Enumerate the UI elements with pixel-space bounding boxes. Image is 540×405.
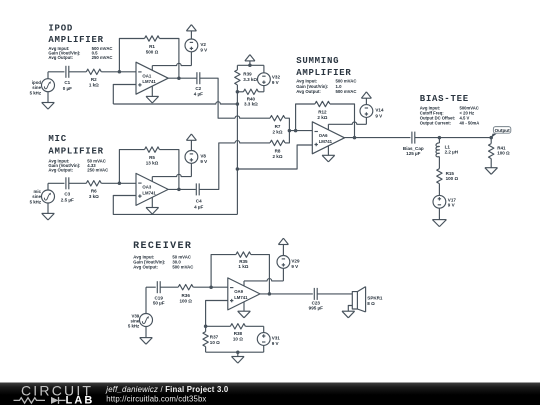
svg-text:R37: R37 <box>210 334 219 339</box>
wire <box>330 104 355 138</box>
op-amp OA6 V+ pin wire <box>328 117 366 129</box>
ground <box>146 208 159 215</box>
svg-text:10 Ω: 10 Ω <box>233 337 243 342</box>
op-amp OA3 <box>136 173 168 205</box>
circuitlab logo text CIRCUIT <box>21 382 93 398</box>
node junction <box>236 350 240 354</box>
resistor R12 <box>315 101 330 120</box>
node: mic amplifier title <box>48 134 103 156</box>
svg-text:BIAS-TEE: BIAS-TEE <box>420 94 469 104</box>
wire <box>237 64 264 66</box>
wire <box>113 85 136 105</box>
node: mic amplifier stats <box>48 158 108 172</box>
svg-text:9 V: 9 V <box>291 264 298 269</box>
wire <box>168 77 196 79</box>
voltage source V5 mic sine 5 kHz <box>30 189 55 205</box>
svg-text:5 kHz: 5 kHz <box>30 90 42 95</box>
resistor R36 <box>178 285 193 304</box>
capacitor C23 <box>309 288 323 311</box>
node junction <box>248 64 252 68</box>
wire <box>285 118 289 130</box>
svg-text:OA6: OA6 <box>319 133 328 138</box>
svg-text:9 V: 9 V <box>272 341 279 346</box>
svg-text:5 kHz: 5 kHz <box>128 324 140 329</box>
op-amp OA1 <box>136 62 168 94</box>
svg-text:9 V: 9 V <box>200 159 207 164</box>
svg-text:C23: C23 <box>312 300 321 305</box>
node: summing amplifier title <box>296 56 351 78</box>
node junction <box>236 102 240 106</box>
svg-text:3.3 kΩ: 3.3 kΩ <box>244 101 258 106</box>
svg-text:4 µF: 4 µF <box>194 204 203 209</box>
svg-text:C19: C19 <box>155 295 164 300</box>
svg-text:Avg Output:: Avg Output: <box>48 55 73 60</box>
svg-text:LM741: LM741 <box>142 190 156 195</box>
svg-text:V14: V14 <box>375 108 384 113</box>
node junction <box>236 167 240 171</box>
capacitor C19 <box>153 281 165 306</box>
svg-text:R2: R2 <box>91 77 97 82</box>
wire <box>101 182 136 184</box>
voltage source V31 <box>257 326 280 352</box>
wire hop <box>235 141 270 143</box>
node: bias-tee title <box>420 94 469 104</box>
node: receiver stats <box>133 255 193 270</box>
svg-text:V8: V8 <box>200 154 206 159</box>
logo text LAB <box>66 394 95 405</box>
footer url line <box>106 394 206 403</box>
wire <box>296 104 315 131</box>
svg-text:3 kΩ: 3 kΩ <box>89 194 99 199</box>
svg-text:ipod: ipod <box>32 80 42 85</box>
capacitor C4 <box>194 183 203 209</box>
capacitor Bias_Cap <box>403 132 424 157</box>
node junction <box>177 188 181 192</box>
svg-text:500 mVAC: 500 mVAC <box>336 89 357 94</box>
resistor R38 <box>206 324 264 342</box>
svg-text:Avg Output:: Avg Output: <box>133 265 158 270</box>
svg-text:R5: R5 <box>149 155 155 160</box>
svg-text:R36: R36 <box>182 293 191 298</box>
svg-text:R12: R12 <box>318 109 327 114</box>
svg-text:R38: R38 <box>234 331 243 336</box>
svg-text:9 V: 9 V <box>375 113 382 118</box>
svg-text:500 Ω: 500 Ω <box>146 49 159 54</box>
svg-text:C1: C1 <box>64 80 70 85</box>
inductor L1 <box>436 138 458 157</box>
wire <box>415 137 491 139</box>
wire <box>69 71 87 73</box>
svg-text:995 µF: 995 µF <box>309 306 323 311</box>
op-amp OA6 V- pin wire <box>327 146 329 156</box>
logo diode <box>51 397 66 404</box>
svg-text:100 Ω: 100 Ω <box>446 176 459 181</box>
svg-text:R41: R41 <box>497 145 506 150</box>
node: ipod amplifier title <box>48 23 103 45</box>
svg-text:http://circuitlab.com/cdt35bx: http://circuitlab.com/cdt35bx <box>106 394 206 403</box>
voltage source V39 sine 5 kHz <box>128 314 153 329</box>
svg-text:C2: C2 <box>195 86 201 91</box>
svg-text:8 Ω: 8 Ω <box>367 301 375 306</box>
svg-text:AMPLIFIER: AMPLIFIER <box>48 146 103 156</box>
voltage source V2 <box>185 39 207 53</box>
wire <box>260 293 313 295</box>
svg-text:9 V: 9 V <box>200 48 207 53</box>
svg-text:OA9: OA9 <box>234 289 243 294</box>
svg-text:5 kHz: 5 kHz <box>30 200 42 205</box>
svg-text:Output Current:: Output Current: <box>420 121 451 126</box>
svg-text:500 mVAC: 500 mVAC <box>172 265 193 270</box>
footer bar <box>0 383 540 405</box>
vcc arrow <box>278 238 288 255</box>
svg-text:100 Ω: 100 Ω <box>179 299 192 304</box>
svg-text:50 µF: 50 µF <box>153 301 165 306</box>
voltage source V8 <box>185 151 207 165</box>
ground <box>322 155 335 162</box>
resistor R2 <box>86 69 101 88</box>
svg-text:40 - 50mA: 40 - 50mA <box>460 121 480 126</box>
voltage source V17 <box>433 195 456 208</box>
svg-text:0 µF: 0 µF <box>63 86 72 91</box>
voltage source V32 <box>258 65 281 92</box>
svg-text:sine: sine <box>32 85 41 90</box>
svg-text:13 kΩ: 13 kΩ <box>146 161 159 166</box>
svg-text:250 mVAC: 250 mVAC <box>87 168 108 173</box>
node: bias-tee stats <box>420 106 480 126</box>
svg-text:C3: C3 <box>64 192 70 197</box>
svg-text:125 µF: 125 µF <box>406 151 420 156</box>
svg-text:2.2 µH: 2.2 µH <box>445 150 459 155</box>
svg-text:2 kΩ: 2 kΩ <box>273 154 283 159</box>
svg-text:LAB: LAB <box>66 394 95 405</box>
svg-text:V31: V31 <box>272 336 281 341</box>
svg-text:C4: C4 <box>196 199 202 204</box>
wire <box>251 255 270 294</box>
svg-text:L1: L1 <box>445 144 451 149</box>
svg-text:Avg Output:: Avg Output: <box>296 89 321 94</box>
svg-text:Output: Output <box>495 128 511 133</box>
svg-text:LM741: LM741 <box>319 139 333 144</box>
svg-text:LM741: LM741 <box>234 295 248 300</box>
logo resistor squiggle <box>14 398 46 403</box>
wire <box>237 145 312 169</box>
wire <box>206 351 264 353</box>
resistor R15 <box>437 169 459 184</box>
wire <box>285 131 289 143</box>
svg-text:jeff_daniewicz / Final Project: jeff_daniewicz / Final Project 3.0 <box>105 385 229 394</box>
svg-text:10 Ω: 10 Ω <box>210 340 220 345</box>
resistor R41 <box>489 144 511 159</box>
bias net vertical wire <box>236 92 238 215</box>
resistor R5 <box>144 147 159 166</box>
ground <box>232 352 245 363</box>
capacitor C1 <box>63 66 72 91</box>
wire <box>113 102 237 104</box>
svg-text:1.0: 1.0 <box>336 84 343 89</box>
op-amp OA9 <box>228 278 260 310</box>
vcc arrow <box>186 25 196 39</box>
svg-text:Gain (Vout/Vin):: Gain (Vout/Vin): <box>296 84 329 89</box>
node junction <box>353 136 357 140</box>
svg-text:R15: R15 <box>446 171 455 176</box>
svg-text:R1: R1 <box>149 44 155 49</box>
wire <box>317 293 352 295</box>
wire <box>193 286 228 288</box>
svg-text:9 V: 9 V <box>272 80 279 85</box>
op-amp OA6 <box>312 122 344 154</box>
wire <box>490 138 492 144</box>
svg-text:R8: R8 <box>275 149 281 154</box>
wire <box>101 71 136 73</box>
vcc arrow <box>361 92 371 105</box>
wire <box>69 182 87 184</box>
wire hop <box>235 116 270 118</box>
wire <box>345 137 411 139</box>
wire <box>199 143 235 190</box>
svg-text:AMPLIFIER: AMPLIFIER <box>296 68 351 78</box>
resistor R7 <box>270 116 285 135</box>
svg-text:2.5 µF: 2.5 µF <box>61 197 74 202</box>
op-amp OA1 V- pin wire <box>151 86 153 96</box>
node junction <box>209 285 213 289</box>
capacitor C2 <box>194 72 203 96</box>
resistor R6 <box>86 181 101 200</box>
node junction <box>204 325 208 329</box>
speaker ground wire <box>348 306 352 312</box>
node junction <box>489 136 493 140</box>
wire <box>160 39 179 79</box>
wire <box>160 286 178 288</box>
wire <box>113 196 237 215</box>
wire <box>438 184 440 196</box>
ground <box>432 208 446 226</box>
footer author line <box>105 385 229 394</box>
svg-text:9 V: 9 V <box>448 203 455 208</box>
voltage source V1 ipod sine 5 kHz <box>30 79 55 96</box>
svg-text:500 mVAC: 500 mVAC <box>336 78 357 83</box>
svg-text:250 mVAC: 250 mVAC <box>92 55 113 60</box>
wire <box>289 130 312 132</box>
svg-text:Avg Output:: Avg Output: <box>48 168 73 173</box>
svg-text:V17: V17 <box>448 197 457 202</box>
wire <box>237 91 243 93</box>
op-amp OA9 V- pin wire <box>243 302 245 311</box>
svg-text:OA1: OA1 <box>142 73 151 78</box>
svg-text:sine: sine <box>32 194 41 199</box>
node: summing amplifier stats <box>296 78 356 94</box>
wire <box>168 188 196 190</box>
node junction <box>268 292 272 296</box>
wire <box>211 255 236 288</box>
node junction <box>118 182 122 186</box>
svg-text:R39: R39 <box>243 72 252 77</box>
vcc arrow <box>186 134 196 150</box>
svg-text:V32: V32 <box>272 75 281 80</box>
wire <box>236 65 238 70</box>
ground <box>238 311 251 318</box>
op-amp OA9 V+ pin wire <box>244 268 283 286</box>
node: ipod amplifier stats <box>48 46 112 60</box>
svg-text:2 kΩ: 2 kΩ <box>317 115 327 120</box>
wire <box>236 85 238 92</box>
resistor R8 <box>270 140 285 159</box>
resistor R40 <box>243 89 258 106</box>
wire <box>206 301 228 327</box>
resistor R37 <box>203 326 220 352</box>
node junction <box>236 90 240 94</box>
wire <box>258 91 264 93</box>
svg-text:Bias_Cap: Bias_Cap <box>403 146 424 151</box>
voltage source V14 <box>360 105 384 119</box>
ground <box>146 96 159 103</box>
svg-text:2 kΩ: 2 kΩ <box>273 129 283 134</box>
node junction <box>118 70 122 74</box>
op-amp OA1 V+ pin wire <box>152 52 191 70</box>
capacitor C3 <box>61 177 74 202</box>
svg-text:1 kΩ: 1 kΩ <box>89 83 99 88</box>
svg-text:V2: V2 <box>200 42 206 47</box>
node junction <box>438 136 442 140</box>
node: receiver title <box>133 241 192 252</box>
svg-text:1 kΩ: 1 kΩ <box>238 264 248 269</box>
ground <box>140 326 153 344</box>
node junction <box>288 129 292 133</box>
vcc arrow <box>245 55 255 66</box>
wire <box>160 150 179 190</box>
resistor R39 <box>235 70 258 85</box>
wire <box>119 150 144 184</box>
wire <box>119 39 144 72</box>
wire <box>48 72 64 79</box>
svg-text:IPOD: IPOD <box>48 23 73 33</box>
svg-text:SPKR1: SPKR1 <box>367 295 383 300</box>
svg-text:Avg Input:: Avg Input: <box>296 78 318 83</box>
wire <box>438 157 440 169</box>
ground <box>485 159 498 175</box>
svg-text:4 µF: 4 µF <box>194 92 203 97</box>
svg-text:OA3: OA3 <box>142 185 151 190</box>
op-amp OA3 V- pin wire <box>151 197 153 207</box>
svg-text:mic: mic <box>34 189 42 194</box>
svg-text:V29: V29 <box>291 259 300 264</box>
wire <box>48 183 64 190</box>
resistor R35 <box>236 252 251 269</box>
svg-text:R6: R6 <box>91 189 97 194</box>
node junction <box>177 76 181 80</box>
resistor R1 <box>144 36 159 55</box>
svg-text:MIC: MIC <box>48 134 66 144</box>
wire <box>146 287 156 313</box>
svg-text:RECEIVER: RECEIVER <box>133 241 192 252</box>
op-amp OA3 V+ pin wire <box>152 163 191 181</box>
svg-text:100 Ω: 100 Ω <box>497 151 510 156</box>
svg-text:3.3 kΩ: 3.3 kΩ <box>243 77 257 82</box>
wire <box>200 78 235 118</box>
speaker SPKR1 <box>352 287 383 312</box>
ground <box>42 92 55 109</box>
svg-text:LM741: LM741 <box>142 79 156 84</box>
svg-text:SUMMING: SUMMING <box>296 56 339 66</box>
svg-text:AMPLIFIER: AMPLIFIER <box>48 35 103 45</box>
output flag <box>491 127 511 138</box>
node junction <box>294 129 298 133</box>
ground <box>42 203 55 220</box>
svg-text:R7: R7 <box>275 124 281 129</box>
ground <box>342 311 355 318</box>
voltage source V29 <box>277 256 300 270</box>
